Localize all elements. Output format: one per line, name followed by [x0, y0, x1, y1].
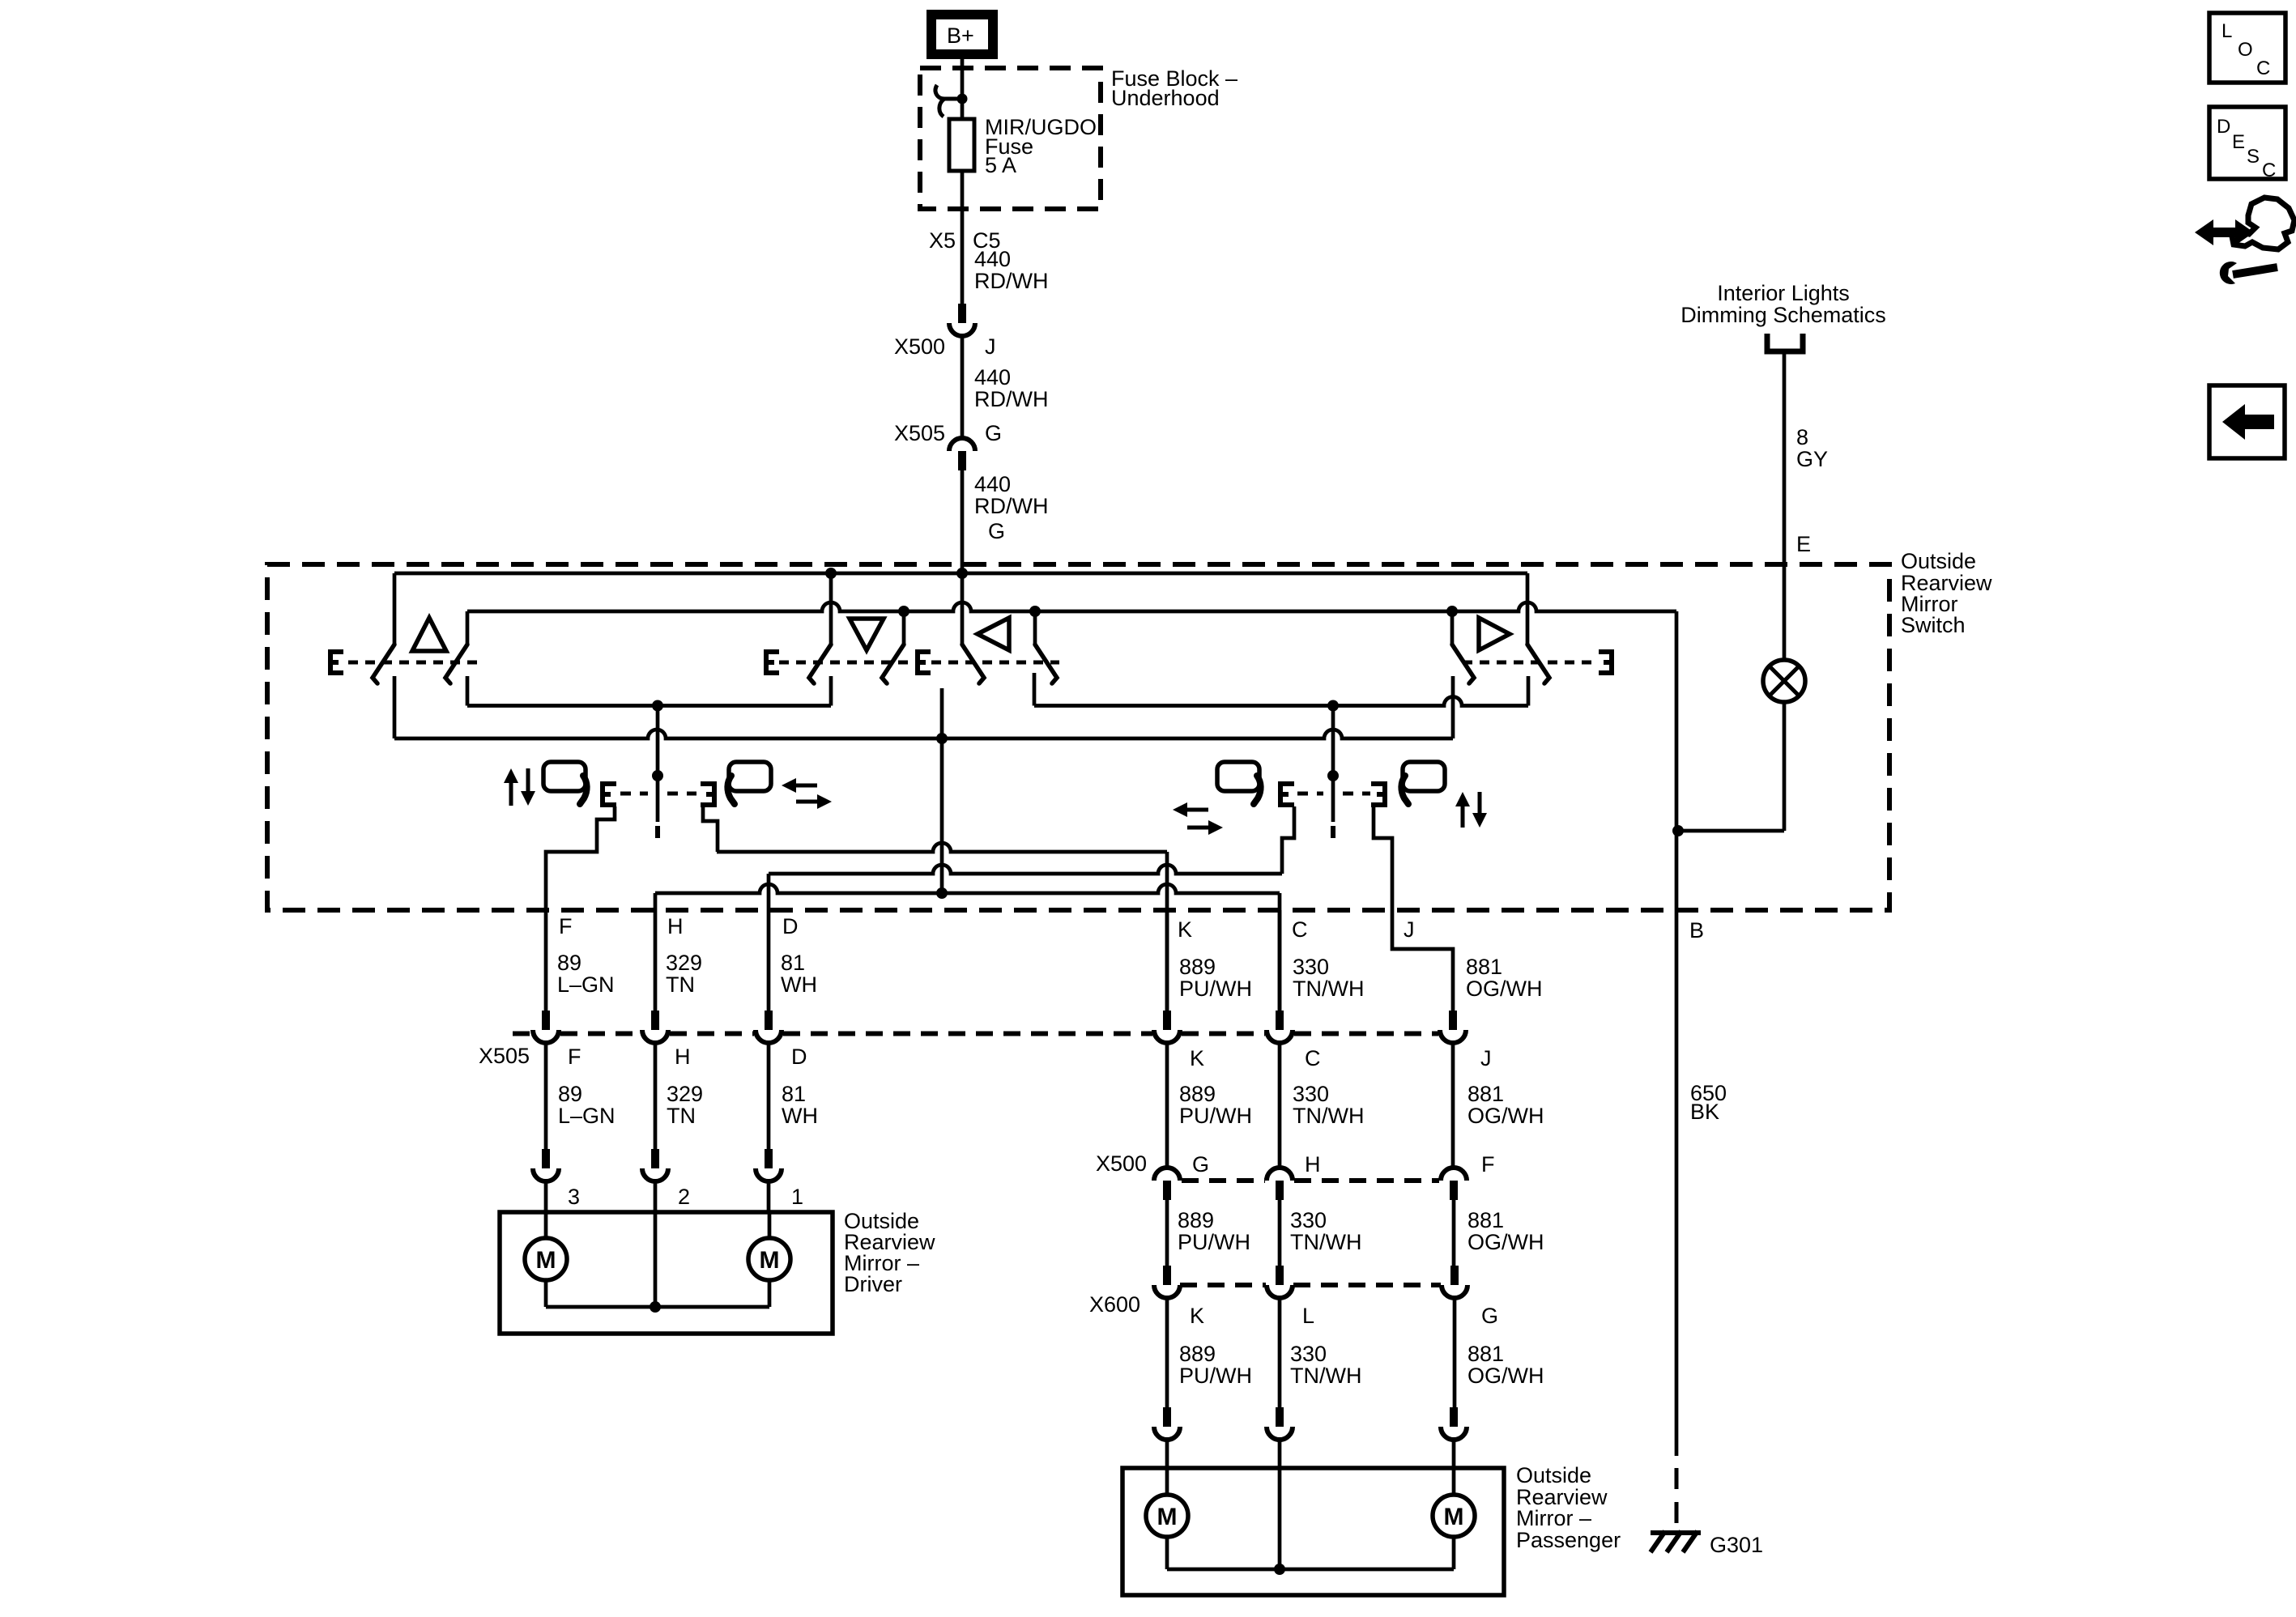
svg-text:F: F	[1481, 1152, 1495, 1177]
svg-text:3: 3	[568, 1185, 580, 1209]
svg-text:X600: X600	[1089, 1292, 1140, 1317]
svg-text:89: 89	[558, 1082, 582, 1106]
svg-text:PU/WH: PU/WH	[1179, 977, 1252, 1001]
svg-text:OG/WH: OG/WH	[1467, 1104, 1544, 1128]
svg-text:E: E	[1796, 532, 1811, 556]
svg-text:WH: WH	[782, 1104, 818, 1128]
svg-text:OG/WH: OG/WH	[1467, 1364, 1544, 1388]
svg-text:889: 889	[1179, 1082, 1216, 1106]
svg-text:M: M	[1444, 1504, 1464, 1530]
svg-text:D: D	[2217, 116, 2230, 138]
svg-text:TN/WH: TN/WH	[1293, 977, 1364, 1001]
svg-text:440: 440	[974, 472, 1011, 496]
svg-text:440: 440	[974, 365, 1011, 389]
svg-text:330: 330	[1290, 1342, 1327, 1366]
svg-text:2: 2	[678, 1185, 690, 1209]
svg-text:G: G	[985, 421, 1002, 445]
svg-text:Driver: Driver	[844, 1272, 902, 1296]
svg-text:X505: X505	[479, 1044, 530, 1068]
svg-text:81: 81	[781, 951, 805, 975]
svg-text:J: J	[1404, 917, 1415, 942]
svg-text:C: C	[1292, 917, 1308, 942]
svg-text:H: H	[675, 1045, 691, 1069]
svg-text:Switch: Switch	[1901, 613, 1966, 637]
svg-text:G: G	[1481, 1304, 1498, 1328]
svg-text:OG/WH: OG/WH	[1467, 1230, 1544, 1254]
svg-text:Dimming Schematics: Dimming Schematics	[1680, 303, 1886, 327]
svg-text:440: 440	[974, 247, 1011, 271]
svg-text:RD/WH: RD/WH	[974, 387, 1048, 411]
svg-text:Passenger: Passenger	[1516, 1528, 1621, 1552]
svg-text:F: F	[568, 1045, 581, 1069]
svg-text:RD/WH: RD/WH	[974, 494, 1048, 518]
svg-text:M: M	[1157, 1504, 1178, 1530]
svg-text:881: 881	[1467, 1082, 1504, 1106]
svg-text:D: D	[782, 914, 799, 938]
svg-text:M: M	[536, 1247, 556, 1274]
svg-text:8: 8	[1796, 425, 1808, 449]
svg-text:D: D	[791, 1045, 807, 1069]
svg-text:330: 330	[1290, 1208, 1327, 1232]
svg-text:330: 330	[1293, 955, 1329, 979]
svg-text:K: K	[1190, 1046, 1204, 1070]
svg-text:881: 881	[1467, 1342, 1504, 1366]
svg-text:889: 889	[1179, 955, 1216, 979]
svg-text:GY: GY	[1796, 447, 1828, 471]
svg-text:PU/WH: PU/WH	[1179, 1104, 1252, 1128]
svg-text:L–GN: L–GN	[557, 972, 615, 997]
svg-text:81: 81	[782, 1082, 806, 1106]
svg-text:G301: G301	[1710, 1533, 1763, 1557]
svg-text:Outside: Outside	[1901, 549, 1976, 573]
svg-text:C: C	[1305, 1046, 1321, 1070]
svg-text:RD/WH: RD/WH	[974, 269, 1048, 293]
svg-text:OG/WH: OG/WH	[1466, 977, 1543, 1001]
svg-text:X500: X500	[894, 334, 945, 359]
svg-text:K: K	[1190, 1304, 1204, 1328]
svg-text:BK: BK	[1690, 1100, 1719, 1124]
svg-text:M: M	[760, 1247, 780, 1274]
svg-text:881: 881	[1466, 955, 1502, 979]
svg-text:C: C	[2256, 57, 2270, 79]
svg-text:F: F	[559, 914, 573, 938]
svg-text:TN: TN	[667, 1104, 696, 1128]
svg-text:L–GN: L–GN	[558, 1104, 616, 1128]
svg-text:C: C	[2262, 160, 2276, 181]
svg-text:329: 329	[666, 951, 702, 975]
svg-text:Interior Lights: Interior Lights	[1717, 281, 1850, 305]
svg-text:Mirror –: Mirror –	[1516, 1506, 1591, 1530]
svg-text:881: 881	[1467, 1208, 1504, 1232]
svg-text:L: L	[2221, 20, 2232, 42]
svg-text:J: J	[1480, 1046, 1492, 1070]
svg-text:TN/WH: TN/WH	[1293, 1104, 1364, 1128]
svg-text:K: K	[1178, 917, 1192, 942]
svg-text:H: H	[667, 914, 684, 938]
svg-text:TN/WH: TN/WH	[1290, 1364, 1361, 1388]
svg-text:Underhood: Underhood	[1111, 86, 1220, 110]
svg-text:X5: X5	[929, 228, 956, 253]
svg-text:889: 889	[1179, 1342, 1216, 1366]
svg-text:889: 889	[1178, 1208, 1214, 1232]
svg-text:TN/WH: TN/WH	[1290, 1230, 1361, 1254]
svg-text:B: B	[1689, 918, 1704, 943]
svg-text:G: G	[988, 519, 1005, 543]
svg-text:H: H	[1305, 1152, 1321, 1177]
svg-text:B+: B+	[947, 23, 974, 48]
svg-text:E: E	[2232, 131, 2245, 153]
svg-text:1: 1	[791, 1185, 803, 1209]
svg-text:X505: X505	[894, 421, 945, 445]
svg-text:PU/WH: PU/WH	[1178, 1230, 1250, 1254]
svg-text:89: 89	[557, 951, 581, 975]
svg-text:TN: TN	[666, 972, 695, 997]
svg-text:O: O	[2238, 39, 2253, 61]
svg-text:PU/WH: PU/WH	[1179, 1364, 1252, 1388]
svg-text:J: J	[985, 334, 996, 359]
svg-text:WH: WH	[781, 972, 817, 997]
svg-text:5 A: 5 A	[985, 153, 1016, 177]
svg-text:G: G	[1192, 1152, 1209, 1177]
svg-text:X500: X500	[1096, 1151, 1147, 1176]
svg-text:S: S	[2247, 146, 2260, 168]
svg-text:329: 329	[667, 1082, 703, 1106]
svg-text:330: 330	[1293, 1082, 1329, 1106]
svg-text:L: L	[1302, 1304, 1314, 1328]
svg-text:Outside: Outside	[1516, 1463, 1591, 1487]
